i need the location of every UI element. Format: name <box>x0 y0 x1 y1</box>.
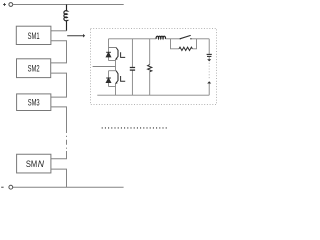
arrow detail indicator <box>67 34 85 38</box>
wire SMN top stub <box>51 151 67 159</box>
inductor arm L <box>64 5 67 31</box>
wire lower diode lead <box>108 71 110 87</box>
wire right branch bottom <box>208 83 210 95</box>
submodule SMN <box>17 154 51 173</box>
wire SM1 top stub <box>51 30 67 32</box>
diode D1 (upper) <box>106 52 111 57</box>
resistor R1 <box>148 65 152 72</box>
diode D2 (lower) <box>106 78 111 83</box>
wire lower split <box>109 70 117 72</box>
wire upper diode lead <box>108 48 110 61</box>
switch S1 blade <box>180 35 192 39</box>
wire cap C2 stem <box>208 57 210 60</box>
terminal negative <box>9 185 13 189</box>
wire upper-left corner <box>109 39 117 48</box>
wire inner bottom rail <box>97 94 209 96</box>
capacitor C2 <box>207 54 212 56</box>
inductor L2 (series rail) <box>156 36 165 39</box>
node + (positive terminal label) <box>3 3 6 6</box>
wire inner top rail <box>109 38 210 40</box>
wire resistor branch <box>149 39 151 95</box>
svg-text:SM2: SM2 <box>28 64 40 74</box>
ellipsis continuation dots <box>102 127 169 129</box>
wire SMN bottom link <box>51 169 67 187</box>
wire AC tap <box>93 66 116 68</box>
svg-text:N: N <box>38 158 44 169</box>
wire to bottom rail <box>115 83 117 95</box>
wire bypass combo left <box>171 39 180 49</box>
svg-text:SM: SM <box>26 158 37 169</box>
capacitor C1 <box>130 68 135 71</box>
wire top DC rail <box>13 4 124 6</box>
wire lower rejoin <box>109 86 116 88</box>
wire upper rejoin <box>109 60 116 62</box>
wire right branch top <box>208 39 210 54</box>
arrow continuation down <box>207 59 211 61</box>
wire capacitor branch <box>131 39 133 95</box>
wire dash-dot continuation <box>66 128 68 151</box>
transistor T2 (lower IGBT) <box>115 71 125 84</box>
svg-text:SM1: SM1 <box>28 31 40 41</box>
wire dotted continuation <box>208 63 210 79</box>
wire bypass combo right <box>192 39 196 49</box>
wire bottom DC rail <box>13 186 124 188</box>
transistor T1 (upper IGBT) <box>115 48 125 60</box>
submodule SM1 <box>16 26 51 44</box>
terminal positive <box>9 3 13 7</box>
wire SM3 bottom stub <box>51 107 67 128</box>
wire SM1-SM2 link <box>51 41 67 63</box>
svg-text:SM3: SM3 <box>28 98 40 108</box>
wire SM2-SM3 link <box>51 73 67 97</box>
resistor R2 (bypass) <box>179 47 192 50</box>
submodule SM3 <box>17 94 51 111</box>
dashed submodule detail boundary <box>91 29 217 105</box>
arrow continuation up <box>207 81 211 83</box>
wire midpoint vertical <box>115 59 117 70</box>
node - (negative terminal label) <box>1 186 3 188</box>
submodule SM2 <box>17 59 51 78</box>
